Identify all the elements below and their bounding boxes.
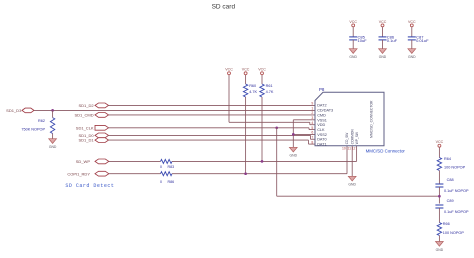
svg-text:100 NOPOP: 100 NOPOP — [444, 166, 466, 170]
svg-text:10uF: 10uF — [358, 38, 368, 43]
svg-text:VCC: VCC — [349, 20, 357, 24]
svg-text:C88: C88 — [447, 178, 454, 182]
svg-text:7: 7 — [311, 135, 313, 139]
svg-text:11: 11 — [347, 147, 351, 151]
svg-text:VCC: VCC — [408, 20, 416, 24]
svg-text:10: 10 — [342, 147, 346, 151]
svg-text:WP_SW: WP_SW — [355, 132, 359, 144]
svg-text:0.1uF NOPOP: 0.1uF NOPOP — [444, 210, 469, 214]
svg-text:SD1_CMD: SD1_CMD — [74, 113, 93, 118]
svg-text:COMMON: COMMON — [350, 129, 354, 145]
svg-text:VCC: VCC — [225, 68, 233, 72]
svg-text:SD1_D2: SD1_D2 — [78, 103, 94, 108]
svg-text:SD1_D3: SD1_D3 — [6, 108, 22, 113]
svg-text:R64: R64 — [444, 157, 451, 161]
svg-text:R66: R66 — [443, 222, 450, 226]
svg-text:R83: R83 — [168, 165, 175, 169]
svg-text:GND: GND — [436, 248, 444, 252]
svg-text:0.1uF: 0.1uF — [387, 38, 398, 43]
svg-text:DAT1: DAT1 — [317, 143, 326, 147]
svg-text:C89: C89 — [447, 199, 454, 203]
svg-text:750K NOPOP: 750K NOPOP — [21, 128, 45, 132]
svg-text:4.7K: 4.7K — [266, 90, 274, 94]
svg-text:R62: R62 — [38, 119, 45, 123]
svg-text:CMD: CMD — [317, 113, 326, 117]
svg-text:SD1_D1: SD1_D1 — [78, 138, 94, 143]
svg-text:CD_SW: CD_SW — [345, 133, 349, 145]
svg-text:GND: GND — [379, 55, 387, 59]
svg-text:VDD: VDD — [317, 123, 325, 127]
svg-text:VSS2: VSS2 — [317, 133, 327, 137]
svg-text:0: 0 — [160, 165, 162, 169]
svg-text:VCC: VCC — [379, 20, 387, 24]
svg-text:VCC: VCC — [242, 68, 250, 72]
svg-text:R60: R60 — [249, 84, 256, 88]
svg-text:4: 4 — [311, 121, 313, 125]
svg-text:CLK: CLK — [317, 128, 325, 132]
svg-text:9: 9 — [311, 102, 313, 106]
svg-text:MMC/SD_CONNECTOR: MMC/SD_CONNECTOR — [370, 100, 374, 138]
svg-text:P8: P8 — [319, 87, 325, 92]
svg-text:5: 5 — [311, 126, 313, 130]
svg-text:GND: GND — [349, 55, 357, 59]
svg-text:2: 2 — [311, 111, 313, 115]
svg-text:DAT2: DAT2 — [317, 104, 326, 108]
svg-text:GND: GND — [408, 55, 416, 59]
svg-text:0: 0 — [160, 180, 162, 184]
svg-text:1: 1 — [311, 106, 313, 110]
svg-text:SD_WP: SD_WP — [76, 159, 91, 164]
svg-text:MMC/SD Connector: MMC/SD Connector — [366, 149, 406, 154]
svg-text:VCC: VCC — [258, 68, 266, 72]
svg-text:DAT0: DAT0 — [317, 138, 326, 142]
svg-text:3: 3 — [311, 116, 313, 120]
svg-text:0.01uF: 0.01uF — [416, 38, 429, 43]
svg-text:8: 8 — [311, 140, 313, 144]
svg-text:6: 6 — [311, 131, 313, 135]
svg-text:4.7K: 4.7K — [249, 90, 257, 94]
svg-text:R61: R61 — [266, 84, 273, 88]
svg-text:GND: GND — [290, 154, 298, 158]
svg-text:VCC: VCC — [436, 140, 444, 144]
svg-text:0.1uF NOPOP: 0.1uF NOPOP — [444, 189, 469, 193]
svg-text:R86: R86 — [168, 180, 175, 184]
svg-text:CD/DAT3: CD/DAT3 — [317, 109, 333, 113]
svg-text:100 NOPOP: 100 NOPOP — [443, 231, 465, 235]
svg-text:SD1_CLK: SD1_CLK — [76, 125, 94, 130]
svg-text:SD card: SD card — [212, 3, 236, 10]
svg-text:GND: GND — [49, 145, 57, 149]
svg-text:SD Card Detect: SD Card Detect — [65, 183, 114, 189]
svg-text:VSS1: VSS1 — [317, 118, 327, 122]
svg-text:GND: GND — [348, 183, 356, 187]
svg-text:COPI1_RDY: COPI1_RDY — [67, 171, 90, 176]
